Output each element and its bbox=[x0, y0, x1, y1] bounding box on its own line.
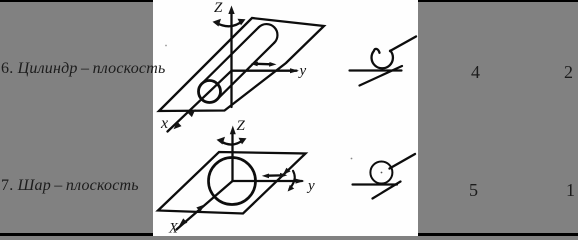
svg-text:Z: Z bbox=[214, 0, 223, 16]
svg-text:Z: Z bbox=[237, 118, 246, 134]
svg-text:x: x bbox=[160, 115, 168, 132]
svg-text:y: y bbox=[298, 63, 307, 79]
svg-text:y: y bbox=[306, 178, 315, 194]
svg-text:X: X bbox=[168, 221, 179, 237]
